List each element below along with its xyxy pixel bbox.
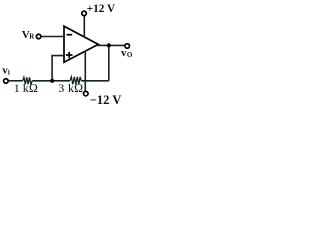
terminal V_O [125, 44, 130, 49]
wire: -12V supply drop from bottom edge [84, 51, 86, 91]
wire: V_R to inverting input [41, 36, 64, 38]
op-amp minus input mark [67, 34, 73, 36]
wire: 3k to feedback corner [81, 80, 109, 82]
resistor R2 3 kOhm zigzag [70, 77, 81, 85]
terminal V_R [36, 34, 41, 39]
svg-text:i: i [8, 69, 10, 77]
wire: 1k to junction to 3k [32, 80, 70, 82]
svg-text:+12 V: +12 V [87, 3, 115, 15]
op-amp plus input mark [66, 54, 73, 56]
svg-text:kΩ: kΩ [68, 81, 83, 95]
terminal -12V [84, 91, 89, 96]
svg-text:−12 V: −12 V [90, 93, 122, 107]
wire: output to V_O terminal [98, 44, 125, 46]
op-amp U1 triangle [64, 26, 98, 62]
terminal +12V [82, 11, 87, 16]
svg-text:O: O [127, 51, 133, 59]
terminal v_i [4, 79, 8, 84]
resistor R1 1 kOhm zigzag [23, 77, 33, 84]
wire: feedback vertical from output junction [108, 45, 110, 80]
svg-text:1 kΩ: 1 kΩ [14, 81, 38, 95]
wire: v_i to 1k resistor [9, 80, 23, 82]
junction node output [107, 43, 111, 47]
wire: +12V supply drop to top edge [83, 16, 85, 38]
wire: non-inverting input L-shape down to bottom rail [52, 56, 64, 81]
junction node A [50, 79, 54, 83]
svg-text:3: 3 [58, 81, 64, 95]
